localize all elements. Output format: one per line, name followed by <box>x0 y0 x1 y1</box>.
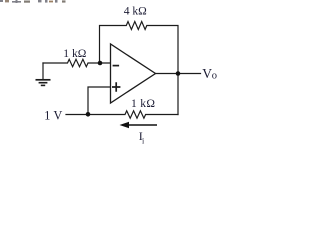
svg-text:i: i <box>142 136 145 145</box>
svg-text:1 V: 1 V <box>44 109 62 123</box>
svg-text:4 kΩ: 4 kΩ <box>124 5 147 18</box>
svg-text:1 kΩ: 1 kΩ <box>131 97 155 110</box>
svg-text:V: V <box>202 66 212 81</box>
svg-text:1 kΩ: 1 kΩ <box>63 47 86 60</box>
svg-text:o: o <box>212 71 217 82</box>
